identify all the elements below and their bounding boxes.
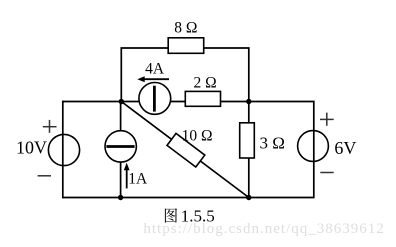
svg-text:8 Ω: 8 Ω xyxy=(174,20,197,37)
svg-text:2 Ω: 2 Ω xyxy=(194,74,217,91)
svg-text:4A: 4A xyxy=(145,61,165,78)
svg-text:10V: 10V xyxy=(16,137,47,157)
svg-text:https://blog.csdn.net/qq_38639: https://blog.csdn.net/qq_38639612 xyxy=(143,221,384,237)
svg-text:10 Ω: 10 Ω xyxy=(182,128,213,145)
svg-text:6V: 6V xyxy=(334,138,356,158)
svg-text:1A: 1A xyxy=(128,170,148,187)
svg-text:3 Ω: 3 Ω xyxy=(260,134,285,153)
